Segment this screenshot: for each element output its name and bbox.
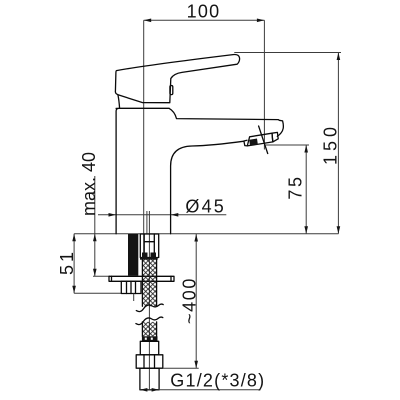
centerline of faucet axis xyxy=(143,20,145,257)
arrow left of dimension 100 xyxy=(144,19,152,23)
hose crimp collar dark band xyxy=(142,336,158,341)
aerator inner line right xyxy=(272,132,278,142)
stud centerline tick below nut xyxy=(133,294,135,302)
arrow right of dimension 100 xyxy=(257,19,265,23)
arrow top of dimension max 40 xyxy=(93,234,97,242)
arrow top of dimension 400 xyxy=(194,234,198,242)
mounting nut below washer xyxy=(121,281,141,293)
faucet body and spout outline xyxy=(116,108,283,233)
svg-text:~400: ~400 xyxy=(179,277,199,324)
svg-text:max. 40: max. 40 xyxy=(79,152,99,216)
dimension line 75 xyxy=(305,145,307,234)
dimension leader line G thread xyxy=(140,389,261,391)
svg-text:G1/2(*3/8): G1/2(*3/8) xyxy=(170,370,265,390)
arrow left of G thread dimension xyxy=(140,388,148,392)
countertop underside line xyxy=(93,275,110,277)
body seam line under handle xyxy=(116,107,169,109)
dimension line 400 xyxy=(195,234,197,368)
hose fitting dark band xyxy=(140,258,158,260)
hose fitting below counter xyxy=(140,234,158,258)
hose break mark lower xyxy=(136,317,163,325)
extension line bottom for dimension 400 xyxy=(163,367,199,369)
faucet handle lever xyxy=(115,55,239,103)
diagonal slash through aerator xyxy=(259,126,268,154)
extension line bottom for dimension 51 xyxy=(74,292,121,294)
arrow right of G thread dimension xyxy=(152,388,160,392)
countertop surface line xyxy=(74,233,338,235)
arrow bottom of dimension 150 xyxy=(337,226,341,234)
svg-text:100: 100 xyxy=(187,2,221,22)
mounting washer flange xyxy=(109,276,174,281)
dimension line 150 xyxy=(337,53,339,234)
dimension line diameter 45 xyxy=(98,214,226,216)
arrow top of dimension 51 xyxy=(72,234,76,242)
arrow bottom of dimension max 40 xyxy=(93,269,97,277)
spout underside curve xyxy=(171,141,244,234)
svg-text:75: 75 xyxy=(286,174,306,199)
dimension line max 40 xyxy=(94,176,96,276)
hose axis line xyxy=(148,211,150,390)
aerator end cap left xyxy=(244,140,248,146)
hose connection nut xyxy=(136,355,163,368)
svg-text:Ø45: Ø45 xyxy=(185,196,226,216)
arrow bottom of dimension 51 xyxy=(72,286,76,294)
arrow right of diameter 45 xyxy=(171,213,179,217)
arrow bottom of dimension 400 xyxy=(194,361,198,369)
aerator on spout outlet xyxy=(247,133,272,146)
braided hose upper segment xyxy=(142,260,156,307)
hose fitting crimp blocks xyxy=(142,253,148,258)
hose ferrule xyxy=(140,341,158,355)
dimension line 51 xyxy=(73,234,75,294)
aerator knurl dark band xyxy=(249,139,258,146)
hose break mark upper xyxy=(136,304,163,312)
extension line spout for dimension 75 xyxy=(266,144,309,146)
extension line right of dimension 100 xyxy=(263,20,265,149)
cartridge capsule detail on handle neck xyxy=(170,86,173,95)
dimension line 100 xyxy=(144,19,265,21)
arrow left of diameter 45 xyxy=(109,213,117,217)
braided hose lower segment xyxy=(142,322,156,336)
threaded stud below counter (black) xyxy=(128,234,138,276)
neck rear profile line under handle xyxy=(118,95,120,109)
G thread stub xyxy=(140,368,159,390)
arrow bottom of dimension 75 xyxy=(304,226,308,234)
extension line top for dimension 150 xyxy=(234,52,341,54)
arrow top of dimension 150 xyxy=(337,53,341,61)
arrow top of dimension 75 xyxy=(304,145,308,153)
svg-text:51: 51 xyxy=(57,249,77,275)
svg-text:150: 150 xyxy=(321,123,341,165)
